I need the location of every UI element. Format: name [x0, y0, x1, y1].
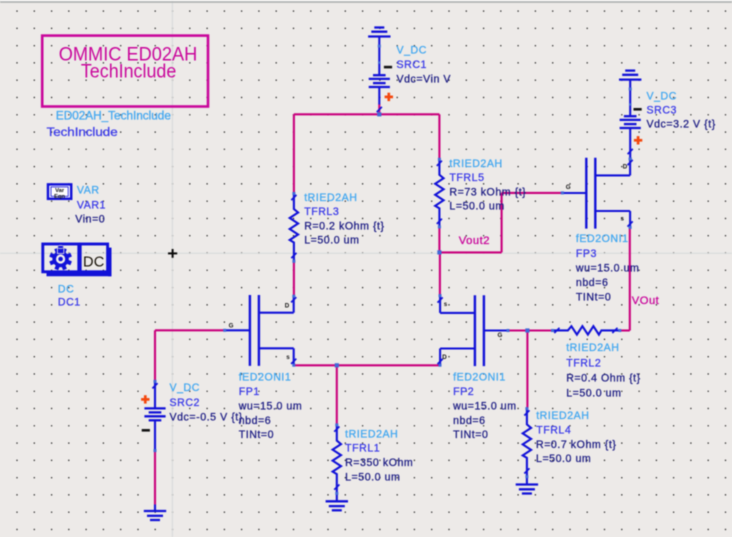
svg-text:tRIED2AH: tRIED2AH	[449, 158, 502, 170]
svg-text:TFRL2: TFRL2	[566, 357, 601, 369]
svg-text:Eqn: Eqn	[54, 194, 65, 200]
svg-text:s: s	[621, 216, 625, 223]
svg-text:L=50.0 um: L=50.0 um	[449, 201, 504, 213]
svg-text:V_DC: V_DC	[397, 45, 427, 57]
svg-text:FP1: FP1	[239, 386, 260, 398]
svg-text:VAR1: VAR1	[77, 199, 106, 211]
svg-text:VAR: VAR	[77, 185, 100, 197]
svg-text:Vin=0: Vin=0	[75, 214, 105, 226]
svg-text:Vdc=3.2 V {t}: Vdc=3.2 V {t}	[647, 119, 716, 131]
svg-text:TINt=0: TINt=0	[453, 429, 488, 441]
svg-text:DC: DC	[83, 254, 104, 270]
svg-text:G: G	[498, 332, 503, 339]
svg-text:TechInclude: TechInclude	[47, 125, 118, 139]
svg-text:tRIED2AH: tRIED2AH	[536, 410, 589, 422]
svg-text:ED02AH_TechInclude: ED02AH_TechInclude	[56, 108, 171, 122]
svg-text:tRIED2AH: tRIED2AH	[566, 342, 619, 354]
svg-text:SRC2: SRC2	[170, 397, 200, 409]
svg-text:tRIED2AH: tRIED2AH	[304, 192, 357, 204]
svg-text:L=50.0 um: L=50.0 um	[345, 471, 400, 483]
svg-text:wu=15.0 um: wu=15.0 um	[452, 401, 517, 413]
svg-text:s: s	[444, 301, 448, 308]
svg-text:V_DC: V_DC	[647, 91, 677, 103]
svg-text:tRIED2AH: tRIED2AH	[345, 428, 398, 440]
svg-text:FP2: FP2	[453, 386, 474, 398]
svg-text:TFRL3: TFRL3	[304, 206, 339, 218]
svg-text:R=73 kOhm {t}: R=73 kOhm {t}	[449, 186, 526, 198]
svg-text:nbd=6: nbd=6	[239, 415, 272, 427]
svg-text:s: s	[286, 354, 290, 361]
svg-text:TFRL1: TFRL1	[345, 443, 380, 455]
svg-text:nbd=6: nbd=6	[576, 277, 609, 289]
svg-text:V_DC: V_DC	[170, 382, 200, 394]
svg-text:G: G	[566, 184, 571, 191]
svg-text:TFRL4: TFRL4	[536, 424, 571, 436]
svg-text:fED2ONI1: fED2ONI1	[239, 372, 292, 384]
svg-text:L=50.0 um: L=50.0 um	[304, 235, 359, 247]
svg-text:L=50.0 um: L=50.0 um	[536, 453, 591, 465]
svg-text:Vout2: Vout2	[459, 235, 490, 247]
svg-text:TFRL5: TFRL5	[449, 172, 484, 184]
svg-text:Vdc=Vin V: Vdc=Vin V	[397, 73, 452, 85]
svg-text:SRC1: SRC1	[397, 59, 427, 71]
svg-text:SRC3: SRC3	[647, 105, 677, 117]
svg-text:R=0.4 Ohm {t}: R=0.4 Ohm {t}	[566, 372, 641, 384]
svg-text:G: G	[229, 323, 234, 330]
svg-text:TINt=0: TINt=0	[239, 429, 274, 441]
svg-text:D: D	[442, 354, 447, 361]
svg-text:R=0.2 kOhm {t}: R=0.2 kOhm {t}	[304, 220, 384, 232]
svg-text:nbd=6: nbd=6	[453, 415, 486, 427]
svg-text:FP3: FP3	[576, 248, 597, 260]
svg-text:D: D	[623, 163, 628, 170]
svg-text:TINt=0: TINt=0	[576, 292, 611, 304]
svg-text:L=50.0 um: L=50.0 um	[566, 388, 621, 400]
svg-text:D: D	[285, 302, 290, 309]
svg-text:VOut: VOut	[632, 295, 660, 307]
svg-text:fED2ONI1: fED2ONI1	[453, 372, 506, 384]
svg-text:wu=15.0 um: wu=15.0 um	[238, 401, 303, 413]
svg-text:TechInclude: TechInclude	[81, 61, 177, 83]
svg-text:Vdc=-0.5 V {t}: Vdc=-0.5 V {t}	[170, 412, 243, 424]
svg-text:DC1: DC1	[58, 297, 81, 309]
svg-text:DC: DC	[58, 284, 74, 296]
svg-text:wu=15.0 um: wu=15.0 um	[575, 262, 640, 274]
svg-text:fED2ONI1: fED2ONI1	[576, 233, 629, 245]
svg-text:R=350 kOhm: R=350 kOhm	[345, 457, 413, 469]
svg-text:R=0.7 kOhm {t}: R=0.7 kOhm {t}	[536, 439, 616, 451]
